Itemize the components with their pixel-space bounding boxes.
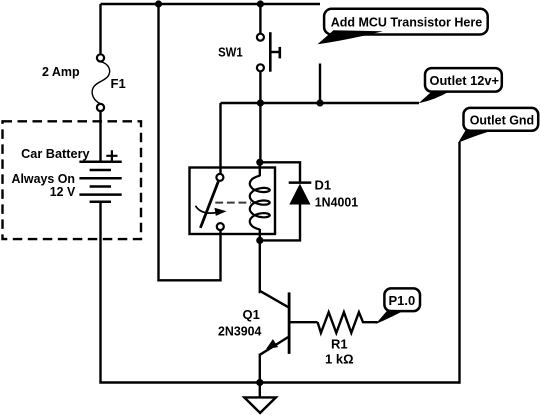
battery short plate 1	[90, 169, 111, 172]
relay COM contact circle	[217, 223, 224, 230]
fuse F1 bottom terminal circle	[97, 104, 104, 111]
wire: D1 top branch	[260, 162, 300, 182]
relay switch blade	[200, 182, 218, 228]
svg-text:Q1: Q1	[243, 307, 260, 322]
svg-text:Outlet Gnd: Outlet Gnd	[470, 113, 535, 128]
transistor Q1 emitter arrow	[266, 339, 278, 349]
battery short plate 3	[90, 200, 111, 203]
node junction dot coil top / D1	[256, 159, 263, 166]
relay mechanical link dashed line	[215, 202, 251, 204]
wire: right rail up to Outlet Gnd	[458, 142, 460, 384]
node junction dot SW1/switched rail	[257, 99, 264, 106]
relay NO contact circle	[216, 174, 223, 181]
wire: Q1 base lead	[289, 321, 318, 323]
switch SW1 pushbutton actuator bar	[269, 32, 272, 71]
transistor Q1 base bar	[288, 292, 291, 354]
callout tail Add MCU	[318, 30, 384, 44]
relay actuation arrow	[196, 206, 217, 213]
wire: battery - down to ground rail	[99, 202, 101, 383]
transistor Q1 emitter lead	[260, 337, 289, 355]
battery long plate 2	[79, 177, 121, 180]
fuse F1 top terminal circle	[97, 54, 104, 61]
fuse F1 top lead	[99, 4, 101, 54]
relay coil	[250, 176, 270, 230]
svg-text:R1: R1	[331, 337, 348, 352]
callout Outlet 12v+	[425, 68, 502, 92]
wire: relay NO contact riser	[219, 103, 221, 174]
switch SW1 bottom terminal circle	[257, 64, 264, 71]
svg-text:1N4001: 1N4001	[315, 195, 358, 210]
wire: SW1 top lead	[259, 4, 261, 34]
battery short plate 2	[90, 185, 111, 188]
relay K1 body box	[190, 168, 276, 235]
wire: D1 bottom branch	[260, 203, 300, 240]
svg-text:F1: F1	[111, 76, 126, 91]
battery plus sign	[106, 150, 117, 161]
callout tail P1.0	[376, 310, 405, 324]
wire: switched rail y=103 to Outlet 12v+	[221, 102, 420, 104]
svg-text:P1.0: P1.0	[389, 293, 416, 308]
node junction dot on top rail (to relay COM)	[155, 0, 162, 7]
wire: relay coil to Q1 collector	[259, 240, 262, 292]
svg-text:2N3904: 2N3904	[218, 324, 262, 339]
svg-text:Car Battery: Car Battery	[21, 146, 90, 161]
transistor Q1 collector lead	[260, 291, 288, 307]
resistor R1 zigzag	[318, 312, 378, 333]
switch SW1 pushbutton stem	[270, 51, 280, 53]
node junction dot emitter/ground rail	[256, 379, 263, 386]
node junction dot at SW1 top on rail	[257, 0, 264, 7]
wire: vertical drop from top rail to lower-left run	[157, 4, 159, 280]
battery long plate 3	[79, 193, 121, 196]
svg-text:Outlet 12v+: Outlet 12v+	[430, 73, 500, 88]
switch SW1 pushbutton cap	[278, 47, 281, 59]
svg-text:Add MCU Transistor Here: Add MCU Transistor Here	[331, 15, 483, 30]
callout P1.0	[384, 288, 420, 311]
wire: fuse to battery +	[99, 111, 101, 162]
svg-text:12 V: 12 V	[50, 184, 76, 199]
battery long plate 1	[79, 160, 121, 163]
ground symbol	[244, 383, 276, 413]
wire: horizontal run to relay COM riser	[157, 279, 220, 281]
switch SW1 top terminal circle	[257, 34, 264, 41]
diode D1 cathode bar	[289, 181, 312, 184]
wire: SW1 bottom lead down to switched rail	[259, 71, 261, 162]
svg-text:SW1: SW1	[218, 45, 243, 60]
wire: bottom ground rail	[99, 381, 459, 383]
diode D1 triangle	[289, 184, 310, 205]
wire: open stub for future MCU transistor	[319, 64, 321, 104]
svg-text:2 Amp: 2 Amp	[42, 64, 80, 79]
wire: coil top lead	[259, 162, 261, 176]
wire: top rail from fuse to SW1 stub	[101, 3, 321, 5]
svg-text:1 kΩ: 1 kΩ	[325, 352, 354, 367]
wire: coil bottom lead	[259, 229, 261, 241]
node junction dot coil bottom / D1	[256, 237, 263, 244]
wire: riser up to relay COM contact	[219, 230, 221, 281]
wire: emitter down to ground rail	[259, 354, 261, 383]
node junction dot MCU stub/switched rail	[316, 99, 323, 106]
battery dashed enclosure box	[3, 121, 142, 239]
callout tail Outlet Gnd	[458, 130, 493, 144]
callout Outlet Gnd	[464, 108, 539, 131]
callout Add MCU Transistor Here	[324, 9, 488, 35]
callout tail Outlet 12v+	[419, 90, 451, 103]
fuse F1 element squiggle	[92, 62, 110, 104]
svg-text:D1: D1	[315, 178, 332, 193]
